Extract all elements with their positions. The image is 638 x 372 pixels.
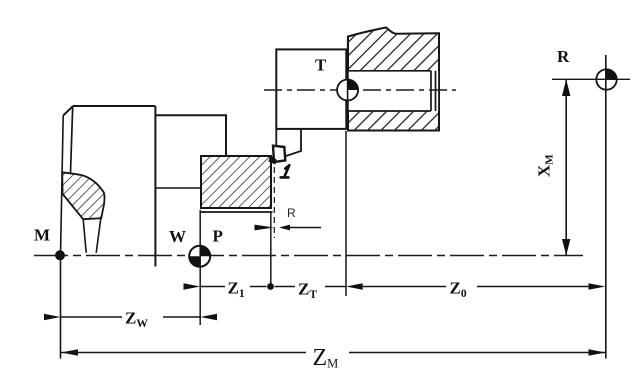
label XM (rotated)	[535, 154, 556, 177]
workpiece step line	[155, 187, 201, 189]
tool tip extension line	[270, 212, 272, 287]
dimension R (tool nose)	[255, 225, 322, 231]
tool tip pointer glyph 1	[281, 165, 290, 177]
chuck body	[63, 106, 155, 267]
workpiece surface line under section	[201, 211, 273, 213]
arrow at turret face line (outside, pointing left)	[346, 283, 363, 289]
svg-text:W: W	[169, 227, 186, 246]
junction dot at tool tip line	[267, 283, 274, 290]
R point symbol	[596, 69, 616, 89]
workpiece section block (hatched)	[201, 156, 271, 208]
arrow at P line (outside, pointing right)	[184, 283, 201, 289]
R extension line	[605, 55, 607, 359]
svg-text:R: R	[287, 206, 296, 220]
svg-text:M: M	[34, 226, 50, 245]
chuck jaw lower leg	[83, 219, 101, 253]
workpiece large step	[155, 115, 226, 156]
tool tip (filled)	[269, 155, 277, 165]
point M (filled dot)	[55, 250, 65, 260]
turret face extension line	[345, 131, 347, 296]
M extension line / chuck left edge	[61, 116, 64, 359]
dimension ZM	[61, 349, 606, 355]
main spindle centerline	[34, 255, 583, 257]
tool axis centerline	[264, 89, 456, 91]
turret bottom edge	[348, 130, 439, 132]
chuck jaw (hatched)	[62, 172, 104, 219]
arrow at R line (pointing right)	[589, 283, 606, 289]
svg-text:P: P	[213, 227, 223, 246]
svg-text:R: R	[557, 47, 570, 66]
W/P extension line	[199, 210, 201, 325]
turret block (hatched)	[348, 28, 439, 131]
point T symbol	[337, 49, 358, 129]
tool tip dashed line	[273, 167, 275, 238]
R horizontal line	[552, 78, 630, 80]
dimension XM	[562, 79, 570, 255]
chuck face inner edge	[71, 107, 73, 173]
tool insert	[273, 146, 285, 162]
svg-text:T: T	[315, 56, 327, 75]
tool shank step	[276, 129, 301, 156]
turret left edge	[347, 37, 349, 131]
tool holder T	[276, 49, 346, 128]
turret bore	[348, 71, 439, 111]
dimension ZW	[44, 314, 217, 320]
dimension chain Z1 ZT Z0	[184, 283, 606, 290]
point W/P symbol	[189, 246, 210, 267]
